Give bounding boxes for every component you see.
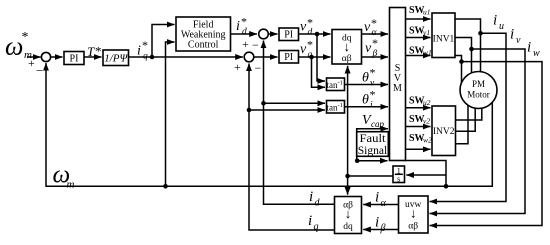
svg-text:−: − (252, 38, 259, 52)
svg-text:−: − (36, 63, 43, 78)
svg-text:u2: u2 (423, 98, 431, 107)
wire vd tap to tan1 (317, 34, 325, 81)
svg-text:*: * (370, 66, 376, 80)
wire SW u1 (406, 18, 431, 20)
label theta i ref (362, 88, 376, 111)
label SW w2 (409, 133, 432, 145)
wire integrator output theta (345, 174, 393, 179)
wire iq ref branch to FWC (150, 25, 175, 60)
svg-text:αβ: αβ (342, 54, 352, 64)
plus sign at C2 (234, 60, 241, 74)
svg-text:m: m (67, 179, 75, 191)
wire theta v to SVM (345, 84, 389, 86)
svg-text:↓: ↓ (343, 39, 350, 54)
label iq feedback (308, 213, 319, 233)
svg-text:q: q (314, 222, 319, 233)
plus sign at C1 (242, 37, 249, 51)
svg-text:INV1: INV1 (433, 35, 455, 45)
wire FWC output id ref (231, 33, 257, 35)
label omega m feedback (53, 162, 75, 191)
wire INV1 phase a to motor (455, 19, 483, 72)
svg-text:β: β (372, 49, 378, 59)
wire SW v1 (406, 37, 431, 39)
svg-text:Motor: Motor (467, 90, 490, 100)
wire INV2 phase c to motor (456, 105, 469, 144)
wire vq tap to tan1 (312, 57, 326, 87)
wire theta to dq-ab block (347, 66, 349, 176)
wire vd ref (299, 32, 331, 37)
svg-text:v: v (300, 42, 307, 57)
label omega m ref (5, 30, 32, 61)
svg-text:v2: v2 (423, 117, 430, 126)
wire i beta (363, 229, 398, 231)
label i beta (375, 215, 386, 235)
minus sign at C1 (252, 38, 259, 52)
svg-text:αβ: αβ (408, 222, 418, 232)
svg-text:s: s (397, 175, 400, 184)
svg-text:*: * (22, 30, 29, 45)
arctan block 1 (326, 78, 344, 91)
wire C0 to PI speed (51, 56, 63, 58)
INV1 box (432, 13, 455, 58)
svg-text:+: + (234, 60, 241, 74)
svg-text:v: v (516, 35, 521, 46)
svg-text:q: q (143, 52, 148, 62)
svg-text:θ: θ (362, 93, 369, 108)
svg-text:i: i (308, 213, 312, 229)
svg-text:α: α (381, 198, 387, 209)
label id feedback (309, 189, 321, 209)
svg-text:PI: PI (284, 30, 293, 41)
svg-text:i: i (493, 13, 497, 29)
svg-text:cap: cap (371, 119, 384, 129)
wire iw measurement (430, 62, 543, 226)
label iw (527, 40, 540, 60)
label iu (493, 13, 504, 33)
summing junction C1 (259, 29, 269, 39)
SVM box (390, 8, 406, 161)
label SW u1 (409, 5, 431, 17)
wire vq ref (299, 55, 331, 60)
label V cap (362, 113, 384, 129)
label vd ref (300, 16, 313, 38)
wire SW w2 (406, 148, 431, 150)
label SW u2 (409, 96, 431, 108)
svg-text:*: * (142, 38, 148, 52)
minus sign at C0 (36, 63, 43, 78)
label vq ref (300, 38, 313, 61)
svg-text:INV2: INV2 (433, 127, 455, 137)
INV2 box (432, 106, 456, 156)
1/P-Psi box (103, 50, 129, 66)
svg-text:i: i (236, 19, 240, 34)
wire v beta (362, 56, 389, 58)
label SW w1 (409, 46, 432, 58)
label SW v1 (409, 26, 430, 38)
wire INV1 phase b to motor (455, 38, 474, 74)
wire iv measurement (430, 49, 526, 214)
wire C1 to PI d (268, 33, 278, 35)
svg-text:+: + (242, 37, 249, 51)
PI d-axis box (279, 28, 299, 41)
svg-text:v1: v1 (423, 28, 430, 37)
Field Weakening Control box (176, 17, 231, 51)
wire v alpha (362, 33, 389, 35)
wire SW v2 (406, 126, 431, 128)
svg-text:β: β (380, 223, 386, 234)
svg-text:PM: PM (472, 79, 485, 89)
svg-text:q: q (308, 50, 313, 60)
svg-text:u: u (499, 21, 504, 32)
wire iq ref rail (129, 56, 243, 58)
svg-text:*: * (372, 36, 378, 50)
svg-text:i: i (527, 40, 531, 56)
minus sign at C2 (255, 61, 262, 75)
wire SW u2 (406, 107, 431, 109)
svg-text:Control: Control (188, 40, 219, 51)
svg-text:Signal: Signal (358, 143, 388, 157)
label v beta ref (365, 36, 378, 59)
svg-text:−: − (255, 61, 262, 75)
svg-text:PI: PI (70, 54, 79, 65)
wire omega m feedback (46, 63, 492, 186)
svg-text:u1: u1 (423, 8, 431, 17)
svg-text:d: d (308, 28, 313, 38)
wire C2 to PI q (254, 56, 278, 58)
svg-text:i: i (510, 27, 514, 43)
svg-text:w2: w2 (423, 136, 432, 145)
PI q-axis box (279, 51, 299, 64)
label iv (510, 27, 521, 47)
arctan block 2 (326, 101, 344, 114)
dq to alpha-beta box (332, 30, 362, 65)
label theta v ref (362, 66, 376, 89)
wire id feedback (264, 41, 335, 205)
wire i alpha (363, 204, 398, 206)
svg-text:θ: θ (362, 71, 369, 86)
svg-text:1/PΨ: 1/PΨ (104, 53, 128, 65)
plus sign at C0 (28, 56, 35, 70)
wire fault signal to SVM (355, 158, 388, 163)
wire INV2 phase b to motor (456, 108, 476, 131)
svg-text:↓: ↓ (345, 206, 352, 221)
svg-text:↓: ↓ (410, 206, 417, 221)
summing junction C2 (244, 52, 254, 62)
svg-text:+: + (28, 56, 35, 70)
wire omega to integrator (406, 174, 446, 176)
integrator 1/s box (393, 166, 405, 184)
wire iq feedback (249, 64, 335, 231)
label v alpha ref (364, 16, 378, 38)
svg-text:M: M (393, 83, 402, 94)
wire theta i to SVM (345, 106, 389, 108)
summing junction C0 (41, 52, 50, 61)
Fault Signal box (357, 131, 389, 157)
wire INV1 phase c to motor (455, 56, 464, 87)
label SW v2 (409, 114, 430, 126)
wire iq tap to tan2 (247, 108, 325, 113)
wire iu measurement (430, 33, 507, 201)
svg-text:i: i (137, 44, 141, 59)
svg-text:i: i (375, 190, 379, 206)
svg-text:i: i (375, 215, 379, 231)
svg-text:v: v (364, 20, 371, 35)
wire PI speed to 1/PPsi (84, 56, 102, 58)
wire Vcap to SVM (357, 129, 388, 161)
label iq ref (137, 38, 148, 62)
wire id tap to tan2 (261, 101, 325, 106)
PI speed controller box (64, 52, 84, 65)
label i alpha (375, 190, 387, 210)
label T ref (87, 44, 102, 60)
label id ref (236, 15, 247, 38)
wire theta to ab-dq block (347, 176, 349, 195)
wire SW w1 (406, 55, 431, 57)
svg-text:dq: dq (343, 222, 353, 232)
wire input omega ref (27, 56, 41, 58)
svg-text:*: * (95, 44, 102, 59)
svg-text:w: w (533, 48, 540, 59)
uvw to alpha-beta box (399, 196, 429, 233)
alpha-beta to dq box (335, 197, 362, 234)
svg-text:*: * (370, 88, 376, 102)
svg-text:PI: PI (284, 52, 293, 63)
PM Motor circle (460, 72, 497, 109)
svg-text:v: v (365, 41, 372, 56)
svg-text:T: T (87, 44, 95, 59)
svg-text:d: d (242, 27, 247, 37)
svg-text:i: i (370, 101, 373, 111)
svg-text:i: i (309, 189, 313, 205)
wire INV2 phase a to motor (456, 108, 482, 120)
svg-text:d: d (315, 198, 321, 209)
wire SVM bottom to omega junction (406, 161, 449, 189)
wire omega tap to FWC (163, 42, 174, 189)
svg-text:w1: w1 (423, 48, 432, 57)
svg-text:v: v (300, 20, 307, 35)
